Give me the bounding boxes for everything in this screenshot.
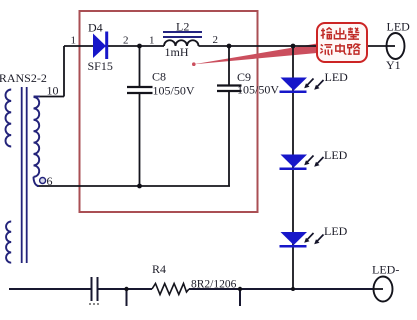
svg-text:TRANS2-2: TRANS2-2	[0, 71, 47, 85]
svg-text:LED-: LED-	[372, 263, 399, 277]
svg-text:C8: C8	[152, 70, 166, 84]
svg-text:R4: R4	[152, 262, 166, 276]
svg-text:LED: LED	[324, 148, 348, 162]
svg-text:LED: LED	[387, 20, 411, 34]
svg-text:LED: LED	[324, 224, 348, 238]
svg-text:Y1: Y1	[386, 58, 401, 72]
svg-text:1: 1	[71, 35, 77, 47]
svg-text:1mH: 1mH	[165, 45, 189, 59]
svg-text:1: 1	[149, 35, 155, 47]
svg-text:2: 2	[213, 34, 219, 46]
svg-text:8R2/1206: 8R2/1206	[191, 279, 237, 291]
svg-text:SF15: SF15	[88, 59, 113, 73]
svg-text:D4: D4	[88, 21, 103, 35]
svg-text:6: 6	[47, 174, 53, 188]
svg-text:2: 2	[123, 35, 129, 47]
svg-text:L2: L2	[176, 20, 189, 34]
svg-text:105/50V: 105/50V	[237, 83, 279, 97]
svg-text:10: 10	[47, 84, 59, 98]
svg-text:LED: LED	[325, 70, 349, 84]
svg-text:105/50V: 105/50V	[153, 84, 195, 98]
